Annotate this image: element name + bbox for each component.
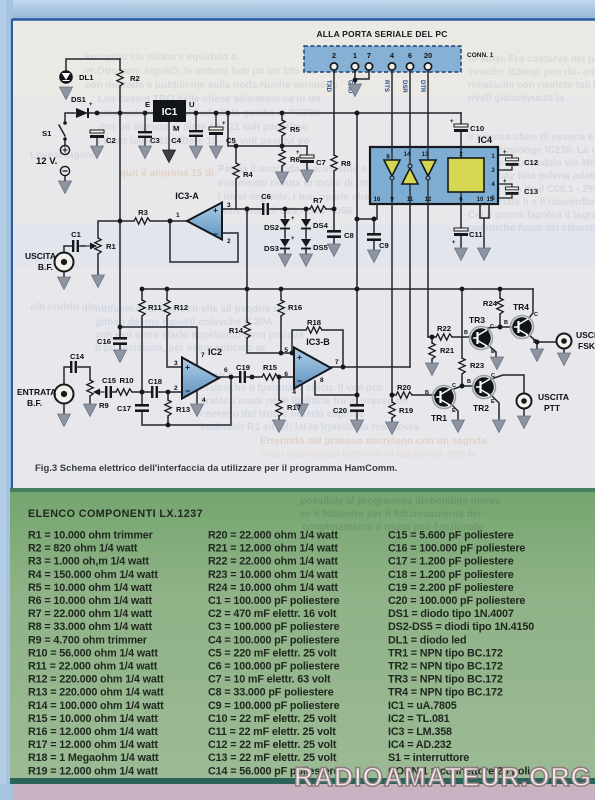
wire IC2 pin4 ground (196, 390, 198, 404)
svg-text:DL1 = diodo led: DL1 = diodo led (388, 634, 466, 646)
capacitor C2 (90, 130, 104, 138)
wire R13 (167, 392, 169, 400)
wire bias rail y289 (142, 288, 533, 290)
svg-text:RADIOAMATEUR.ORG: RADIOAMATEUR.ORG (294, 762, 592, 792)
wire ENTRATA jack to C14 (64, 367, 90, 384)
wire R18 feedback loop (292, 330, 343, 367)
resistor R19 (389, 402, 395, 418)
svg-text:R11 = 22.000 ohm 1/4 watt: R11 = 22.000 ohm 1/4 watt (28, 661, 158, 673)
svg-text:IC4: IC4 (478, 135, 492, 145)
svg-text:DL1: DL1 (79, 73, 94, 82)
svg-text:C15: C15 (102, 376, 117, 385)
svg-text:B: B (467, 379, 471, 385)
ground below DS5 (300, 254, 313, 267)
svg-text:2: 2 (332, 51, 336, 60)
svg-text:R14: R14 (229, 326, 244, 335)
resistor R21 (429, 343, 435, 359)
svg-text:se il fobtware per il fuhziona: se il fobtware per il fuhzionaniente del (300, 509, 481, 520)
wire R21 drop (431, 337, 433, 363)
resistor R20 (396, 392, 412, 398)
wire C17 drop (141, 392, 143, 404)
ground below C7 (301, 170, 314, 183)
resistor R15 (262, 374, 278, 380)
svg-text:TR1: TR1 (431, 413, 447, 423)
svg-text:2: 2 (227, 238, 231, 245)
svg-text:+: + (296, 150, 300, 156)
svg-text:C13: C13 (524, 187, 538, 196)
svg-text:IC2: IC2 (208, 347, 222, 357)
svg-text:C11 = 22 mF elettr. 25 volt: C11 = 22 mF elettr. 25 volt (208, 726, 336, 738)
capacitor C6 (262, 203, 269, 215)
resistor R2 (119, 59, 121, 70)
wire USCITA BF jack to C1 (64, 246, 85, 252)
wire R17 drop (278, 377, 280, 420)
wire +12V rail (65, 113, 153, 122)
svg-text:Errenndo del prasaso micreteno: Errenndo del prasaso micreteno con un se… (260, 436, 487, 447)
svg-text:C17 = 1.200 pF poliestere: C17 = 1.200 pF poliestere (388, 556, 514, 568)
svg-text:C8 = 33.000 pF poliestere: C8 = 33.000 pF poliestere (208, 687, 334, 699)
component list column 1 (28, 530, 164, 778)
battery minus terminal (60, 166, 69, 175)
svg-text:C4: C4 (171, 136, 182, 145)
svg-text:C: C (490, 324, 494, 330)
wire battery/switch column (59, 125, 65, 146)
transistor TR4 (511, 316, 534, 339)
svg-text:olb ondrio qle: olb ondrio qle (30, 302, 97, 313)
svg-text:R4: R4 (243, 170, 254, 179)
resistor R22 (436, 334, 452, 340)
wire TR4 collector to rail (529, 289, 533, 318)
svg-text:E: E (452, 408, 456, 414)
svg-text:RTS: RTS (383, 80, 389, 92)
svg-text:+: + (297, 352, 302, 362)
resistor R7 (310, 206, 326, 212)
wire R4 top branch (228, 113, 307, 209)
svg-text:R10: R10 (119, 376, 133, 385)
wire TR4 base (500, 326, 511, 328)
svg-text:R11: R11 (148, 303, 162, 312)
resistor R16 (278, 300, 284, 316)
svg-text:R24 = 10.000 ohm 1/4 watt: R24 = 10.000 ohm 1/4 watt (208, 582, 338, 594)
svg-text:C7: C7 (316, 158, 326, 167)
svg-text:C20 = 100.000 pF poliestere: C20 = 100.000 pF poliestere (388, 595, 525, 607)
wire C15 R10 chain (112, 391, 142, 393)
resistor R11 (139, 300, 145, 316)
capacitor C4 (189, 130, 203, 137)
svg-text:+: + (185, 362, 190, 372)
led DL1 (59, 70, 73, 84)
svg-text:R7: R7 (313, 196, 323, 205)
ground below battery (59, 181, 72, 194)
svg-text:Los casent TBO delle chese sel: Los casent TBO delle chese seleimino ca … (98, 94, 322, 105)
svg-text:11: 11 (407, 197, 414, 203)
svg-text:C18 = 1.200 pF poliestere: C18 = 1.200 pF poliestere (388, 569, 514, 581)
resistor R4 (233, 163, 239, 179)
IC4 C12 link (498, 155, 512, 170)
op-amp IC3-B (294, 348, 331, 389)
svg-text:C3: C3 (150, 136, 160, 145)
svg-text:R18 = 1 Megaohm 1/4 watt: R18 = 1 Megaohm 1/4 watt (28, 752, 159, 764)
svg-text:B: B (464, 330, 468, 336)
capacitor C19 (239, 371, 246, 383)
wire USCITA jack ground (63, 272, 65, 277)
svg-text:R14 = 100.000 ohm 1/4 watt: R14 = 100.000 ohm 1/4 watt (28, 700, 164, 712)
wire IC4 pin11 vertical (409, 204, 411, 367)
wire R24 column (499, 289, 501, 327)
svg-text:C1: C1 (71, 230, 82, 239)
svg-text:rivell giancovucto la: rivell giancovucto la (468, 93, 565, 104)
trimmer R9 (87, 380, 93, 396)
IC4 AD232 box (370, 147, 498, 204)
resistor R17 (276, 400, 282, 416)
capacitor C3 (138, 131, 152, 138)
svg-text:20: 20 (424, 51, 432, 60)
svg-text:R16 = 12.000 ohm 1/4 watt: R16 = 12.000 ohm 1/4 watt (28, 726, 158, 738)
svg-text:C16: C16 (97, 337, 111, 346)
svg-text:R20: R20 (397, 383, 411, 392)
svg-text:U: U (189, 100, 195, 109)
svg-text:C3 = 100.000 pF poliestere: C3 = 100.000 pF poliestere (208, 621, 340, 633)
svg-text:R1: R1 (106, 242, 117, 251)
svg-text:R6 = 10.000 ohm 1/4 watt: R6 = 10.000 ohm 1/4 watt (28, 595, 152, 607)
op-amp IC3-A (187, 203, 222, 240)
ground IC2 pin4 (191, 404, 204, 417)
capacitor C1 (72, 240, 79, 252)
wire IC4 pin6 to C11 (460, 204, 462, 248)
wire R9 bottom ground (89, 396, 91, 404)
svg-text:IC3 = LM.358: IC3 = LM.358 (388, 726, 452, 738)
resistor R23 (459, 358, 465, 374)
wire DS2 DS3 column (284, 209, 286, 254)
connector signal names (325, 80, 425, 94)
wire TXD line with R8 (333, 70, 335, 209)
svg-text:R8 = 33.000 ohm 1/4 watt: R8 = 33.000 ohm 1/4 watt (28, 621, 152, 633)
svg-text:R21 = 12.000 ohm 1/4 watt: R21 = 12.000 ohm 1/4 watt (208, 543, 338, 555)
svg-text:C12: C12 (524, 158, 538, 167)
capacitor C9 (367, 233, 381, 236)
svg-text:R5: R5 (290, 125, 301, 134)
capacitor C11 (454, 228, 468, 236)
svg-text:C19 = 2.200 pF poliestere: C19 = 2.200 pF poliestere (388, 582, 514, 594)
svg-text:IC1 = uA.7805: IC1 = uA.7805 (388, 700, 457, 712)
resistor R13 (165, 400, 171, 416)
svg-text:IC1: IC1 (162, 107, 178, 118)
svg-text:R3: R3 (138, 208, 148, 217)
svg-text:R3 = 1.000 oh,m 1/4 watt: R3 = 1.000 oh,m 1/4 watt (28, 556, 149, 568)
wire C16 drop (119, 327, 121, 350)
svg-text:R9 = 4.700 ohm trimmer: R9 = 4.700 ohm trimmer (28, 634, 148, 646)
svg-text:TR2: TR2 (473, 403, 489, 413)
wire R16 column (280, 289, 282, 353)
svg-text:TR2 = NPN tipo BC.172: TR2 = NPN tipo BC.172 (388, 661, 503, 673)
svg-text:C8: C8 (344, 231, 355, 240)
wire R11 column (141, 289, 143, 392)
wire C18 to IC2 pin2 (142, 391, 182, 393)
capacitor C18 (151, 386, 158, 398)
resistor R5 (279, 120, 285, 136)
svg-text:miari alquroldala lutenmo ol a: miari alquroldala lutenmo ol asoborate o… (260, 449, 477, 460)
svg-text:C: C (534, 312, 538, 318)
wire IC2 output node (219, 376, 294, 378)
svg-text:DSR: DSR (401, 80, 407, 93)
ghost print-through on panel (300, 496, 501, 533)
ground IC3-B pin4 (296, 404, 309, 417)
wire top link DL1 to R2 (66, 59, 120, 70)
connector pin numbers (332, 51, 432, 60)
svg-text:R22: R22 (437, 324, 451, 333)
svg-text:R13 = 220.000 ohm 1/4 watt: R13 = 220.000 ohm 1/4 watt (28, 687, 164, 699)
svg-text:C10 = 22 mF elettr. 25 volt: C10 = 22 mF elettr. 25 volt (208, 713, 337, 725)
svg-text:R4 = 150.000 ohm 1/4 watt: R4 = 150.000 ohm 1/4 watt (28, 569, 158, 581)
svg-text:4: 4 (292, 389, 296, 396)
svg-text:PTT: PTT (544, 403, 561, 413)
svg-text:7: 7 (367, 51, 371, 60)
svg-text:6: 6 (408, 51, 412, 60)
regulator IC1 (153, 100, 186, 122)
svg-text:DS2: DS2 (264, 223, 279, 232)
svg-text:13: 13 (422, 152, 429, 158)
svg-text:DS1 = diodo tipo 1N.4007: DS1 = diodo tipo 1N.4007 (388, 608, 514, 620)
resistor R24 (497, 298, 503, 314)
svg-text:R24: R24 (483, 299, 498, 308)
wire TR3 collector (488, 327, 500, 331)
trimmer R1 wiper arrow (85, 245, 92, 247)
transistor TR2 (473, 376, 496, 399)
wire R19 drop (391, 395, 393, 422)
svg-text:R15: R15 (263, 363, 278, 372)
svg-text:6: 6 (224, 367, 228, 374)
diode DS1 (76, 108, 88, 118)
diode DS4 (301, 219, 311, 227)
capacitor C16 (113, 337, 127, 340)
svg-text:7: 7 (201, 352, 205, 359)
resistor R14 (244, 322, 250, 338)
svg-text:−: − (213, 229, 218, 239)
svg-text:ENTRATA: ENTRATA (17, 387, 56, 397)
svg-text:vencile: ISfwnp peo du- entfer: vencile: ISfwnp peo du- entfernemente (468, 67, 595, 78)
svg-text:R19: R19 (399, 406, 413, 415)
svg-text:R12: R12 (174, 303, 188, 312)
svg-text:R19 = 12.000 ohm 1/4 watt: R19 = 12.000 ohm 1/4 watt (28, 765, 158, 777)
svg-text:R6: R6 (290, 155, 300, 164)
svg-text:Fig.3 Schema elettrico dell'in: Fig.3 Schema elettrico dell'interfaccia … (35, 463, 397, 474)
svg-text:R23: R23 (470, 361, 484, 370)
green component panel (10, 488, 595, 784)
svg-text:C4 = 100.000 pF poliestere: C4 = 100.000 pF poliestere (208, 634, 340, 646)
wire IC3-B output to IC4 pin11 (331, 366, 410, 368)
wire TR1 emitter ground (451, 404, 458, 420)
svg-text:+: + (89, 102, 93, 108)
wire x120 vertical from rail to C16 node (119, 113, 121, 327)
svg-text:ELENCO COMPONENTI LX.1237: ELENCO COMPONENTI LX.1237 (28, 508, 203, 520)
wire TR3 base R22 (428, 336, 470, 338)
svg-text:TXD: TXD (325, 80, 331, 93)
svg-text:E: E (533, 339, 537, 345)
switch S1 dot (63, 121, 67, 125)
svg-text:C6: C6 (261, 192, 271, 201)
jack ENTRATA BF (55, 385, 74, 404)
ground below serial GND pins (349, 84, 362, 97)
capacitor C10 (454, 124, 468, 132)
svg-text:R1 = 10.000 ohm trimmer: R1 = 10.000 ohm trimmer (28, 530, 154, 542)
svg-text:16: 16 (374, 197, 381, 203)
wire ENTRATA jack ground (63, 404, 65, 414)
resistor R10 (116, 389, 132, 395)
svg-text:C18: C18 (148, 377, 163, 386)
IC4 inverter B (402, 168, 418, 184)
svg-text:IC3-A: IC3-A (175, 191, 199, 201)
svg-text:12: 12 (425, 197, 432, 203)
svg-text:S1: S1 (42, 129, 52, 138)
svg-text:R16: R16 (288, 303, 302, 312)
svg-text:R2 = 820 ohm 1/4 watt: R2 = 820 ohm 1/4 watt (28, 543, 138, 555)
svg-text:IC4 = AD.232: IC4 = AD.232 (388, 739, 452, 751)
svg-text:B.F.: B.F. (27, 398, 42, 408)
IC4 inverter C (420, 160, 436, 176)
svg-text:FSK: FSK (578, 341, 595, 351)
svg-text:7: 7 (335, 359, 339, 366)
IC4 inverter A (384, 160, 400, 176)
svg-text:−: − (297, 376, 302, 386)
svg-text:DTR: DTR (419, 80, 425, 93)
svg-text:B: B (504, 320, 508, 326)
resistor R8 (331, 155, 337, 171)
svg-text:−: − (185, 386, 190, 396)
wire IC3-A output to R3 (120, 220, 187, 222)
svg-text:TR4 = NPN tipo BC.172: TR4 = NPN tipo BC.172 (388, 687, 503, 699)
capacitor C5 (209, 127, 223, 135)
wire C10 drop to IC4 pin2 (460, 113, 462, 147)
svg-text:R17: R17 (287, 403, 301, 412)
IC4 inner stubs (392, 147, 461, 204)
svg-text:B: B (425, 390, 429, 396)
svg-text:E: E (145, 100, 150, 109)
wire TR1 collector to TR2 base (451, 386, 473, 390)
svg-text:C2 = 470 mF elettr. 16 volt: C2 = 470 mF elettr. 16 volt (208, 608, 337, 620)
svg-text:3: 3 (174, 360, 178, 367)
wire TR3 emitter ground (488, 345, 496, 356)
svg-text:C2: C2 (106, 136, 116, 145)
svg-text:USCITA: USCITA (538, 392, 569, 402)
ground IC4 pins 10-15 (478, 248, 491, 261)
svg-text:R23 = 10.000 ohm 1/4 watt: R23 = 10.000 ohm 1/4 watt (208, 569, 338, 581)
battery 12V plus terminal (60, 145, 69, 154)
svg-text:12 V.: 12 V. (36, 156, 57, 167)
svg-text:stalosche il fpentuaro chicu.: stalosche il fpentuaro chicu. Il ven pro (200, 383, 382, 394)
svg-text:quit il anprima 15 di: quit il anprima 15 di (120, 168, 214, 179)
wire IC4 pin9 vertical (391, 204, 393, 395)
wire R14 column pin3 node to IC3-B pin5 (247, 209, 294, 353)
ground IC1 M pin (163, 150, 176, 163)
resistor R18 (306, 327, 322, 333)
svg-text:C10: C10 (470, 124, 484, 133)
svg-text:IC3-B: IC3-B (306, 337, 330, 347)
ground below USCITA BF (58, 277, 71, 290)
svg-text:ALLA PORTA SERIALE DEL PC: ALLA PORTA SERIALE DEL PC (316, 29, 447, 39)
wire C7 drop (306, 146, 308, 170)
svg-text:E: E (491, 399, 495, 405)
svg-text:2: 2 (174, 385, 178, 392)
wire IC4 pin12 vertical (427, 204, 429, 337)
svg-text:C7 = 10 mF elettr. 63 volt: C7 = 10 mF elettr. 63 volt (208, 674, 331, 686)
svg-text:C19: C19 (236, 363, 250, 372)
svg-text:10: 10 (477, 197, 484, 203)
svg-text:4: 4 (202, 397, 206, 404)
svg-text:+: + (503, 179, 507, 185)
wire comparator node C6 DS2 DS4 R7 (247, 208, 334, 210)
ground below DS3 (279, 254, 292, 267)
wire IC3-B pin8 supply (315, 381, 357, 395)
component list column 3 (388, 530, 534, 778)
trimmer R1 (95, 238, 101, 254)
wire RTS to IC4 pin8 (391, 70, 393, 147)
ground below R6 (276, 172, 289, 185)
svg-text:C11: C11 (469, 230, 483, 239)
wire FSK jack ground (563, 349, 565, 353)
svg-text:C12 = 22 mF elettr. 25 volt: C12 = 22 mF elettr. 25 volt (208, 739, 337, 751)
svg-text:+: + (450, 119, 454, 125)
svg-text:R9: R9 (99, 401, 109, 410)
op-amp IC2 (182, 358, 219, 399)
wire TR1 base R20 (392, 394, 434, 396)
jack USCITA PTT (517, 394, 532, 409)
svg-text:+: + (222, 121, 226, 127)
capacitor C17 (135, 404, 149, 407)
wire IC4 pins10-15 to ground (480, 204, 489, 248)
svg-text:R22 = 22.000 ohm 1/4 watt: R22 = 22.000 ohm 1/4 watt (208, 556, 338, 568)
svg-text:DS5: DS5 (313, 243, 329, 252)
svg-text:possibile al programma dishoni: possibile al programma dishonibile nuovo (300, 496, 501, 507)
wire DS4 DS5 column (305, 209, 307, 254)
wire R12 column to IC2 pin3 (167, 289, 182, 367)
ghost text mid-left (30, 302, 419, 433)
wire IC2 pin7 supply (120, 327, 197, 366)
wire IC3-B pin4 ground (301, 383, 303, 404)
svg-text:M: M (173, 124, 179, 133)
svg-text:R18: R18 (307, 318, 322, 327)
svg-text:3: 3 (227, 202, 231, 209)
svg-text:6: 6 (284, 371, 288, 378)
wire x357 vertical bias to C20 (356, 219, 358, 420)
wire IC2 feedback bottom (142, 377, 231, 425)
svg-text:poentiche fuspi dei clinecha v: poentiche fuspi dei clinecha veco figlio… (468, 223, 595, 234)
svg-text:R15 = 10.000 ohm 1/4 watt: R15 = 10.000 ohm 1/4 watt (28, 713, 158, 725)
svg-text:C16 = 100.000 pF poliestere: C16 = 100.000 pF poliestere (388, 543, 525, 555)
svg-text:+: + (503, 150, 507, 156)
ghost bleed-through text top-left (30, 52, 428, 217)
jack USCITA FSK (557, 334, 572, 349)
svg-text:nltifaeecondl qbsn-cn slls sll: nltifaeecondl qbsn-cn slls sll psqdno di… (95, 304, 288, 315)
svg-text:C20: C20 (333, 406, 347, 415)
ground below DL1 (60, 87, 73, 100)
wire R23 vertical (461, 289, 463, 386)
svg-text:R13: R13 (176, 405, 190, 414)
svg-text:TR3: TR3 (469, 315, 485, 325)
wire DSR to IC4 pin14 (409, 70, 411, 147)
svg-text:C5 = 220 mF elettr. 25 volt: C5 = 220 mF elettr. 25 volt (208, 647, 337, 659)
IC4 charge pump block (448, 158, 484, 192)
ghost text top-right column (468, 54, 595, 234)
wire IC1 output 5V rail (186, 112, 461, 114)
svg-text:R12 = 220.000 ohm 1/4 watt: R12 = 220.000 ohm 1/4 watt (28, 674, 164, 686)
svg-text:DS2-DS5 = diodi tipo 1N.4150: DS2-DS5 = diodi tipo 1N.4150 (388, 621, 534, 633)
wire IC3-A pin2 feedback (170, 221, 238, 262)
wire TR4 emitter to FSK jack (529, 335, 556, 349)
svg-text:R8: R8 (341, 159, 352, 168)
connector pin circles (330, 63, 431, 70)
wire C8 drop (333, 209, 335, 244)
capacitor C14 (70, 361, 77, 373)
